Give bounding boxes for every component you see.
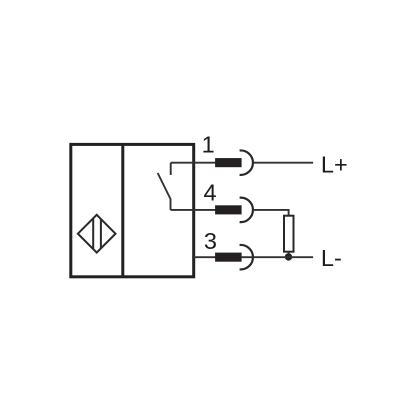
wire resistor to junction: [288, 252, 290, 258]
wire pin 4 (internal + external): [171, 209, 241, 211]
wire pin 1 (internal + external): [171, 162, 241, 164]
wire pin 3 (external): [192, 256, 241, 258]
svg-text:4: 4: [204, 180, 217, 206]
svg-text:L-: L-: [321, 245, 342, 271]
svg-text:3: 3: [204, 228, 217, 254]
junction dot: [285, 253, 292, 260]
resistor (load): [284, 216, 294, 252]
switch contact (NO): [158, 163, 171, 210]
wire to L-: [241, 256, 313, 258]
pin 4 contact: [215, 198, 253, 223]
sensor body outline: [71, 144, 194, 276]
inductive sensor symbol (diamond): [78, 215, 116, 253]
wire to L+: [254, 162, 314, 164]
svg-text:L+: L+: [321, 152, 348, 178]
pin 1 contact: [215, 150, 253, 175]
wire pin4 to resistor: [254, 210, 289, 216]
sensor body divider: [121, 144, 124, 276]
pin 3 contact: [215, 245, 253, 270]
svg-text:1: 1: [202, 132, 215, 158]
